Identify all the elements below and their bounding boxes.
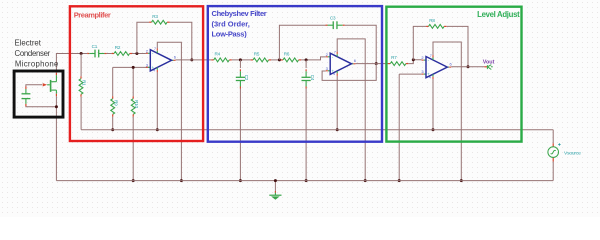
junction R9 mid rail <box>111 128 114 131</box>
junction R10 top <box>132 66 135 69</box>
wire U3 non-inverting input to ground <box>399 73 421 75</box>
wire C2 to ground rail <box>239 88 241 180</box>
annotation box preamplifier <box>70 6 203 141</box>
wire op-amp U2 bottom pin to mid rail <box>336 76 338 130</box>
svg-text:R5: R5 <box>254 52 260 57</box>
wire ground rail <box>56 180 553 182</box>
junction filter output node <box>375 62 378 65</box>
svg-text:(3rd Order,: (3rd Order, <box>212 19 250 28</box>
resistor R6 <box>281 52 301 62</box>
capacitor C1 <box>87 44 106 58</box>
svg-text:7: 7 <box>430 54 432 58</box>
wire C1 to R2 <box>107 53 112 55</box>
wire filter output to R7 <box>376 63 388 65</box>
junction U3 pin4 mid rail <box>432 128 435 131</box>
wire op-amp U1 top pin to ground rail <box>157 42 181 180</box>
wire Vsource to ground rail <box>552 162 554 181</box>
svg-text:Vsource: Vsource <box>564 151 581 157</box>
junction U2 top pin ground rail <box>364 179 367 182</box>
label Chebyshev Filter <box>212 9 267 39</box>
wire down to ground rail <box>398 74 400 181</box>
electret capacitor element <box>22 87 31 107</box>
wire op-amp U1 bottom pin to mid rail <box>156 72 158 130</box>
op-amp U1 <box>146 47 177 72</box>
junction preamp input node <box>80 52 83 55</box>
wire R7 to U3 inverting input <box>408 60 421 64</box>
op-amp U2 <box>326 51 357 76</box>
svg-text:C4: C4 <box>310 75 315 81</box>
svg-text:Vout: Vout <box>483 59 495 65</box>
wire op-amp U3 bottom pin to mid rail <box>432 79 434 130</box>
wire R9 to mid rail <box>112 117 114 130</box>
wire down to R9 <box>112 67 114 96</box>
node Vout pin <box>484 65 492 70</box>
junction level output node <box>467 65 470 68</box>
wire mid supply rail <box>81 129 553 131</box>
annotation box level adjust <box>386 7 521 142</box>
capacitor C4 <box>302 69 315 88</box>
svg-text:4: 4 <box>153 69 155 73</box>
svg-text:R3: R3 <box>152 14 158 19</box>
wire feedback left to R3 <box>137 22 149 53</box>
resistor R2 <box>112 45 132 55</box>
wire node to C1 <box>81 53 87 55</box>
svg-text:R9: R9 <box>113 100 118 106</box>
wire U3 output to Vout <box>451 66 484 68</box>
wire feedback left to R8 <box>413 26 426 59</box>
svg-text:Chebyshev Filter: Chebyshev Filter <box>212 9 267 18</box>
wire R1 to mid rail <box>80 97 82 130</box>
junction U3 top pin ground rail <box>460 179 463 182</box>
wire non-inverting input net <box>113 66 151 68</box>
junction C2 ground rail <box>239 179 242 182</box>
svg-text:7: 7 <box>154 47 156 51</box>
svg-text:C3: C3 <box>330 16 336 21</box>
wire ground stub <box>274 181 276 191</box>
resistor R3 <box>149 14 169 24</box>
annotation box chebyshev filter <box>208 6 382 142</box>
transistor Q1 JFET <box>43 73 57 97</box>
resistor R9 <box>111 96 119 116</box>
svg-text:R7: R7 <box>391 55 397 60</box>
svg-text:4: 4 <box>333 72 335 76</box>
svg-text:R6: R6 <box>284 52 290 57</box>
wire R5 to R6 <box>271 59 281 61</box>
svg-text:Condenser: Condenser <box>15 49 51 58</box>
svg-text:Level Adjust: Level Adjust <box>477 10 520 19</box>
annotation box microphone <box>14 71 63 117</box>
junction feedback to inverting input <box>135 52 138 55</box>
svg-text:R2: R2 <box>115 45 121 50</box>
wire C3 to filter output node <box>345 25 377 63</box>
junction mic <box>55 105 58 108</box>
wire output feedback to U2 non-inverting input <box>322 64 376 81</box>
junction feedback R8 left <box>412 58 415 61</box>
wire node to C4 <box>305 60 307 68</box>
wire mic drain to preamp input <box>56 54 81 73</box>
wire node to C2 <box>239 60 241 68</box>
resistor R1 <box>79 76 87 96</box>
wire C4 to ground rail <box>305 88 307 180</box>
wire mic source to ground rail <box>55 96 57 180</box>
wire R6 to U2 inverting input <box>301 57 326 60</box>
junction U1 top pin ground rail <box>180 179 183 182</box>
svg-text:Electret: Electret <box>15 38 42 47</box>
wire mic cap to JFET gate <box>26 85 42 87</box>
junction ground rail <box>274 179 277 182</box>
junction preamp output node <box>190 58 193 61</box>
wire R8 to output node <box>447 26 468 66</box>
wire U2 output <box>355 63 376 65</box>
svg-text:C1: C1 <box>92 44 98 49</box>
resistor R10 <box>131 96 139 116</box>
wire op-amp U3 top pin to ground rail <box>433 42 461 181</box>
wire op-amp U2 top pin to ground rail <box>337 39 365 181</box>
wire preamp output to filter R4 <box>176 59 212 61</box>
wire node down to R1 <box>80 54 82 77</box>
wire R2 to op-amp inverting input <box>132 53 146 55</box>
op-amp U3 <box>421 54 452 79</box>
resistor R8 <box>426 18 446 28</box>
wire mic cap bottom <box>26 105 57 107</box>
wire down to R10 <box>132 67 134 96</box>
wire mid rail down to Vsource <box>552 130 554 144</box>
svg-text:Microphone: Microphone <box>15 60 59 69</box>
svg-text:Preamplifer: Preamplifer <box>74 11 111 20</box>
wire node up to C3 <box>279 25 325 60</box>
junction R10 ground rail <box>132 179 135 182</box>
junction C2 top <box>239 58 242 61</box>
svg-text:R1: R1 <box>82 80 87 86</box>
capacitor C2 <box>236 69 249 88</box>
junction U3 plus ground rail <box>398 179 401 182</box>
svg-text:C2: C2 <box>244 75 249 81</box>
ground <box>269 191 281 200</box>
svg-text:4: 4 <box>429 75 431 79</box>
wire R10 to ground rail <box>132 117 134 181</box>
svg-text:7: 7 <box>334 51 336 55</box>
wire R4 to R5 <box>232 59 251 61</box>
resistor R7 <box>388 55 408 65</box>
wire R3 to output node <box>170 22 192 60</box>
label Electret Condenser Microphone <box>15 38 59 68</box>
voltage source Vsource <box>548 143 561 161</box>
svg-text:R4: R4 <box>215 52 221 57</box>
junction C4 top <box>305 58 308 61</box>
junction U2 pin4 mid rail <box>336 128 339 131</box>
svg-text:R8: R8 <box>429 18 435 23</box>
junction C3 branch <box>278 58 281 61</box>
svg-text:Low-Pass): Low-Pass) <box>212 30 248 39</box>
svg-text:R10: R10 <box>134 100 139 108</box>
capacitor C3 <box>326 16 345 30</box>
junction U1 pin4 mid rail <box>156 128 159 131</box>
resistor R4 <box>211 52 231 62</box>
resistor R5 <box>251 52 271 62</box>
junction C4 ground rail <box>305 179 308 182</box>
